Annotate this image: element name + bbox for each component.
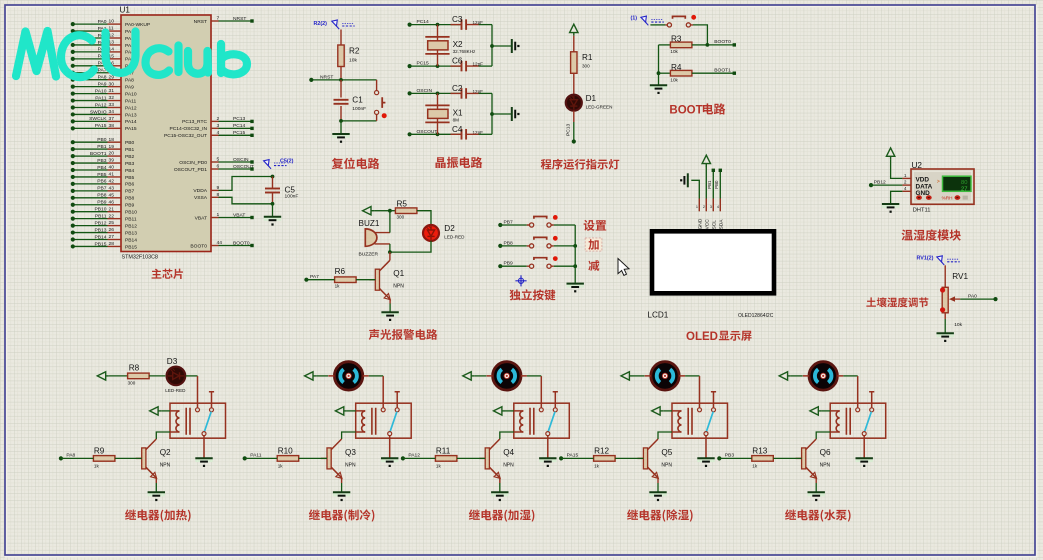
U1 pin PA1 (11) wire [73, 30, 108, 32]
svg-text:1k: 1k [594, 464, 600, 469]
resistor R1 [571, 52, 577, 74]
label 继电器(加湿) [469, 509, 535, 521]
wire R5 to D2 [417, 211, 431, 226]
wire to R1 [573, 36, 575, 52]
svg-text:(1): (1) [631, 16, 638, 22]
push button reset [376, 80, 378, 121]
svg-text:26: 26 [109, 227, 115, 233]
wire button to rail [554, 245, 575, 247]
svg-text:300: 300 [128, 380, 136, 385]
wire D3 to relay [186, 375, 198, 377]
svg-text:OSCOUT: OSCOUT [417, 129, 438, 135]
wire coil to transistor collector [816, 432, 830, 439]
svg-text:PA8: PA8 [66, 453, 75, 459]
svg-text:80: 80 [961, 180, 967, 186]
svg-text:PB13: PB13 [95, 227, 107, 233]
U2 pin 4 GND [902, 190, 911, 192]
op-amp U1 STM32F103C8 chip body [121, 15, 211, 252]
svg-text:PB12: PB12 [125, 223, 137, 229]
U1 pin VSSA (8) wire [211, 196, 219, 198]
svg-text:Q2: Q2 [160, 448, 171, 457]
wire VDDA to C5 [219, 177, 273, 191]
svg-text:PA11: PA11 [250, 453, 262, 459]
svg-text:100nF: 100nF [352, 106, 366, 112]
wire node to Q1 collector [389, 252, 391, 260]
svg-text:DHT11: DHT11 [913, 207, 931, 213]
svg-text:PA15: PA15 [95, 123, 107, 129]
svg-text:X1: X1 [453, 108, 463, 117]
wire GND pin to ground [891, 191, 903, 203]
svg-text:OSCIN: OSCIN [233, 157, 249, 163]
svg-text:PA7: PA7 [310, 274, 319, 280]
wire buzzer pins [389, 211, 391, 233]
U1 pin PB2 (20) wire [73, 155, 108, 157]
crystal X1 [437, 93, 439, 134]
U1 pin VDDA (9) wire [211, 189, 219, 191]
svg-text:20: 20 [109, 151, 115, 157]
U1 pin PB4 (40) wire [73, 169, 108, 171]
svg-text:34: 34 [109, 109, 115, 115]
U1 pin PA13 (34) wire [73, 113, 108, 115]
svg-text:PA15: PA15 [567, 453, 579, 459]
wire Q5 emitter to ground [657, 478, 659, 483]
wire coil to transistor collector [342, 432, 356, 439]
U1 pin PA4 (14) wire [73, 51, 108, 53]
capacitor C1 [340, 80, 342, 121]
svg-text:R9: R9 [94, 446, 105, 455]
svg-text:LCD1: LCD1 [647, 310, 668, 319]
svg-text:GND: GND [698, 218, 704, 229]
svg-text:C3: C3 [452, 15, 463, 24]
ground crystal X1 [512, 107, 515, 121]
wire Q4 emitter to ground [499, 478, 501, 483]
wire to RV1 [944, 265, 946, 287]
wire C1 bottom node [341, 120, 377, 122]
power flag R2(2) [332, 20, 339, 29]
svg-text:PC13: PC13 [233, 116, 246, 122]
svg-text:PB7: PB7 [504, 219, 514, 225]
capacitor C2 [462, 88, 467, 99]
wire VSSA to C5 [219, 197, 273, 204]
relay 继电器(加湿) [514, 403, 570, 438]
node OSCIN terminal [408, 91, 412, 95]
svg-text:40: 40 [109, 165, 115, 171]
motor load Q6 [809, 362, 837, 390]
crystal X2 [437, 25, 439, 67]
svg-text:PB9: PB9 [125, 203, 135, 209]
wire button to BOOT0 node [693, 25, 707, 45]
svg-text:PB12: PB12 [95, 220, 107, 226]
svg-text:PB3: PB3 [725, 453, 735, 459]
svg-text:R2(2): R2(2) [314, 21, 328, 27]
wire D2 to node [390, 241, 431, 252]
svg-text:BOOT0: BOOT0 [233, 240, 250, 246]
resistor R13 [752, 456, 774, 462]
svg-text:BUZZER: BUZZER [359, 251, 379, 257]
svg-text:R6: R6 [335, 267, 346, 276]
ground buttons [567, 283, 584, 288]
svg-text:PC15-OSC32_OUT: PC15-OSC32_OUT [164, 133, 207, 139]
svg-text:19: 19 [109, 144, 115, 150]
U1 pin PA9 (30) wire [73, 86, 108, 88]
svg-text:39: 39 [109, 158, 115, 164]
wire Q1 emitter to ground [389, 299, 391, 303]
svg-text:10k: 10k [954, 322, 962, 328]
ground Q1 [381, 311, 398, 316]
svg-text:RV1: RV1 [952, 272, 968, 281]
power arrow U2 [886, 148, 894, 156]
svg-text:VDDA: VDDA [193, 188, 207, 194]
wire button to rail [554, 224, 575, 226]
svg-text:10k: 10k [349, 58, 357, 64]
power arrow feed 继电器(除湿) [621, 372, 629, 380]
svg-text:PA9: PA9 [125, 84, 134, 90]
svg-text:1k: 1k [278, 464, 284, 469]
svg-text:PB14: PB14 [95, 234, 107, 240]
svg-text:PB1: PB1 [97, 144, 107, 150]
resistor R10 [277, 456, 299, 462]
svg-text:R8: R8 [129, 364, 140, 373]
svg-text:OSCIN_PD0: OSCIN_PD0 [179, 160, 207, 166]
svg-text:100nF: 100nF [285, 194, 299, 200]
svg-text:SCL: SCL [712, 220, 718, 230]
power arrow relay coil [494, 407, 502, 415]
svg-text:U2: U2 [912, 161, 923, 170]
svg-text:BUZ1: BUZ1 [359, 219, 380, 228]
LCD1 pin SDA stub [719, 199, 721, 212]
U1 pin PA7 (17) wire [73, 72, 108, 74]
transistor Q3 [321, 457, 327, 459]
resistor R8 [128, 373, 150, 379]
svg-text:BOOT1: BOOT1 [714, 67, 731, 73]
svg-text:SWCLK: SWCLK [89, 116, 107, 122]
svg-text:D1: D1 [586, 94, 597, 103]
svg-text:PA11: PA11 [125, 98, 137, 104]
potentiometer RV1 [942, 287, 948, 313]
push button PB9 [527, 265, 554, 267]
wire D1 to PC13 [573, 111, 575, 122]
svg-text:PA10: PA10 [125, 91, 137, 97]
power arrow feed 继电器(制冷) [305, 372, 313, 380]
wire motor to relay [369, 375, 384, 377]
U1 pin PA0-WKUP (10) wire [73, 23, 108, 25]
svg-text:37: 37 [109, 116, 115, 122]
svg-text:3: 3 [710, 205, 712, 209]
wire button common rail [574, 225, 576, 283]
svg-text:PB10: PB10 [125, 210, 137, 216]
svg-text:Q5: Q5 [661, 448, 672, 457]
svg-text:SDA: SDA [719, 219, 725, 230]
svg-text:PA8: PA8 [125, 78, 134, 84]
svg-text:22: 22 [109, 213, 115, 219]
svg-text:PB8: PB8 [97, 193, 107, 199]
svg-text:4: 4 [717, 205, 719, 209]
svg-text:NPN: NPN [820, 462, 831, 468]
U2 display screen [943, 176, 972, 191]
svg-text:R12: R12 [594, 446, 609, 455]
U1 pin PA5 (15) wire [73, 58, 108, 60]
transistor Q4 [479, 457, 485, 459]
svg-text:PA13: PA13 [125, 112, 137, 118]
wire RV1 to ground [944, 313, 946, 319]
wire C5 to ground [272, 204, 274, 217]
svg-text:PB14: PB14 [125, 237, 137, 243]
svg-text:LED-RED: LED-RED [165, 388, 186, 393]
U1 pin PB3 (39) wire [73, 162, 108, 164]
svg-text:PC15: PC15 [233, 130, 246, 136]
label 继电器(除湿) [627, 509, 693, 521]
svg-text:C1: C1 [352, 96, 363, 105]
push button PB7 [527, 224, 554, 226]
svg-text:18: 18 [109, 137, 115, 143]
svg-text:PB9: PB9 [504, 261, 514, 267]
label 复位电路 [332, 158, 380, 169]
capacitor C5 [272, 177, 274, 204]
svg-text:32: 32 [109, 95, 115, 101]
svg-text:PB3: PB3 [125, 161, 135, 167]
svg-text:NPN: NPN [393, 284, 404, 290]
svg-text:PB4: PB4 [97, 165, 107, 171]
node PA12 terminal [401, 456, 405, 460]
svg-text:D3: D3 [167, 357, 178, 366]
push button BOOT [650, 24, 665, 26]
power arrow buzzer [363, 207, 371, 215]
U1 pin PA3 (13) wire [73, 44, 108, 46]
U2 indicator dots [916, 195, 922, 200]
svg-text:BOOT0: BOOT0 [190, 243, 207, 249]
svg-text:PB6: PB6 [125, 182, 135, 188]
wire SDA to PB0 [719, 171, 721, 199]
svg-text:C5: C5 [285, 186, 296, 195]
svg-text:R10: R10 [278, 446, 293, 455]
node PA7 terminal [304, 278, 308, 282]
wire motor to relay [527, 375, 541, 377]
svg-text:OLED12864I2C: OLED12864I2C [738, 313, 774, 319]
transistor Q2 [136, 457, 142, 459]
node PB12 terminal [869, 183, 873, 187]
svg-text:PC14: PC14 [417, 19, 430, 25]
module U2 DHT11 body [911, 169, 974, 204]
motor load Q4 [493, 362, 521, 390]
relay 继电器(加热) [170, 403, 226, 438]
svg-text:STM32F103C8: STM32F103C8 [122, 255, 159, 261]
wire to R5 node [374, 210, 390, 212]
svg-text:27: 27 [109, 234, 115, 240]
svg-text:2: 2 [703, 205, 705, 209]
svg-text:300: 300 [582, 64, 590, 69]
U2 pin 1 VDD [902, 177, 911, 179]
label 继电器(水泵) [785, 509, 851, 521]
resistor R2 [338, 45, 344, 67]
resistor R6 [335, 277, 357, 283]
svg-text:PA14: PA14 [125, 119, 137, 125]
svg-text:PA15: PA15 [125, 126, 137, 132]
U1 pin PA11 (32) wire [73, 100, 108, 102]
LCD1 pin GND stub [698, 199, 700, 212]
svg-text:32.768KHz: 32.768KHz [453, 49, 476, 54]
svg-text:LED-GREEN: LED-GREEN [586, 104, 613, 109]
U1 pin VBAT (1) wire [211, 217, 219, 219]
U1 pin PB11 (22) wire [73, 218, 108, 220]
U1 pin PA6 (16) wire [73, 65, 108, 67]
ground Q4 [491, 492, 508, 497]
power arrow relay coil [810, 407, 818, 415]
ground OLED [684, 173, 687, 187]
svg-text:PB5: PB5 [125, 175, 135, 181]
power arrow feed 继电器(水泵) [779, 372, 787, 380]
mouse cursor [618, 259, 629, 276]
U2 pin 2 DATA [902, 184, 911, 186]
power arrow feed 继电器(加湿) [463, 372, 471, 380]
node PA0 wire [960, 298, 995, 300]
svg-text:PA8: PA8 [98, 75, 107, 81]
U1 pin PB9 (46) wire [73, 204, 108, 206]
svg-text:R5: R5 [397, 200, 408, 209]
U1 pin PB5 (41) wire [73, 176, 108, 178]
svg-text:PC13: PC13 [566, 123, 572, 136]
svg-text:PB0: PB0 [125, 140, 135, 146]
U1 pin PB0 (18) wire [73, 141, 108, 143]
svg-text:PB8: PB8 [125, 196, 135, 202]
svg-text:U1: U1 [120, 6, 131, 15]
svg-text:45: 45 [109, 192, 115, 198]
svg-text:8M: 8M [453, 117, 460, 122]
U1 pin PB14 (27) wire [73, 239, 108, 241]
svg-text:PC15: PC15 [417, 61, 430, 67]
svg-text:Q6: Q6 [820, 448, 831, 457]
label 独立按键 [510, 289, 556, 300]
label 主芯片 [152, 269, 183, 279]
capacitor C6 [462, 61, 467, 72]
LCD1 pin VCC stub [705, 199, 707, 212]
svg-text:25: 25 [109, 220, 115, 226]
node PA8 terminal [59, 456, 63, 460]
svg-text:PC14-OSC32_IN: PC14-OSC32_IN [169, 126, 207, 132]
U1 pin BOOT0 (44) wire [211, 245, 219, 247]
motor load Q5 [651, 362, 679, 390]
svg-text:21: 21 [109, 206, 115, 212]
node PC15 terminal [408, 64, 412, 68]
node PB7 terminal [498, 223, 502, 227]
wire R1 to D1 [573, 73, 575, 95]
svg-text:R11: R11 [436, 446, 451, 455]
relay 继电器(水泵) [830, 403, 886, 438]
svg-text:C5(2): C5(2) [280, 159, 294, 165]
svg-text:PB7: PB7 [125, 189, 135, 195]
ground BOOT [650, 85, 667, 90]
resistor R4 [658, 45, 660, 85]
U1 pin OSCIN_PD0 (5) wire [211, 161, 219, 163]
wire right rail [491, 93, 493, 134]
wire motor to relay [685, 375, 699, 377]
wire VCC to R2 [340, 30, 342, 46]
node PC13 terminal [572, 139, 576, 143]
svg-text:41: 41 [109, 172, 115, 178]
svg-text:PB12: PB12 [874, 179, 886, 185]
wire coil to transistor collector [658, 432, 672, 439]
svg-text:PB0: PB0 [97, 137, 107, 143]
U1 pin PA2 (12) wire [73, 37, 108, 39]
power arrow relay coil [150, 407, 158, 415]
motor load Q3 [334, 362, 362, 390]
node OSCOUT terminal [408, 132, 412, 136]
svg-text:R4: R4 [671, 63, 682, 72]
svg-text:PA12: PA12 [408, 453, 420, 459]
svg-text:PB4: PB4 [125, 168, 135, 174]
svg-text:10k: 10k [670, 49, 678, 54]
svg-text:PA11: PA11 [95, 95, 107, 101]
power arrow feed heater [97, 372, 105, 380]
svg-text:1k: 1k [94, 464, 100, 469]
power arrow relay coil [652, 407, 660, 415]
svg-text:1k: 1k [752, 464, 758, 469]
ground crystal X2 [512, 39, 515, 53]
svg-text:D2: D2 [444, 224, 455, 233]
wire coil to transistor collector [156, 432, 170, 439]
node PA15 terminal [559, 456, 563, 460]
svg-text:PA0: PA0 [968, 293, 977, 299]
label 加 selected [585, 238, 602, 251]
resistor R11 [435, 456, 457, 462]
svg-text:PB2: PB2 [125, 154, 135, 160]
RV1 wiper arrow [952, 298, 961, 300]
U1 pin PC13_RTC (2) wire [211, 120, 219, 122]
svg-text:LED-RED: LED-RED [444, 235, 465, 240]
svg-text:SWDIO: SWDIO [90, 109, 107, 115]
label 设置 [584, 220, 607, 231]
U1 pin PB15 (28) wire [73, 245, 108, 247]
svg-text:%RH: %RH [942, 196, 953, 201]
node PC14 terminal [408, 23, 412, 27]
power arrow relay coil [335, 407, 343, 415]
svg-text:PB15: PB15 [125, 244, 137, 250]
resistor R9 [93, 456, 115, 462]
capacitor C3 [462, 19, 467, 30]
svg-text:PA0: PA0 [98, 19, 107, 25]
svg-text:C6: C6 [452, 57, 463, 66]
wire Q3 emitter to ground [341, 478, 343, 483]
U1 pin PB12 (25) wire [73, 225, 108, 227]
wire motor to relay [843, 375, 857, 377]
node PA11 terminal [243, 456, 247, 460]
U1 pin PB8 (45) wire [73, 197, 108, 199]
node NRST wire [311, 79, 376, 81]
svg-text:10: 10 [109, 19, 115, 25]
relay 继电器(除湿) [672, 403, 728, 438]
svg-text:NPN: NPN [661, 462, 672, 468]
node PB9 terminal [498, 264, 502, 268]
svg-text:46: 46 [109, 199, 115, 205]
diode D3 LED-RED [167, 367, 186, 386]
U1 pin OSCOUT_PD1 (6) wire [211, 168, 219, 170]
svg-text:42: 42 [109, 179, 115, 185]
svg-text:R13: R13 [752, 446, 767, 455]
power arrow OLED VCC [705, 166, 707, 198]
wire right rail [491, 25, 493, 67]
svg-text:>: > [937, 179, 940, 185]
wire VDD [891, 159, 903, 178]
U1 pin PA14 (37) wire [73, 120, 108, 122]
svg-text:R3: R3 [671, 35, 682, 44]
resistor R3 [659, 44, 671, 46]
svg-text:NPN: NPN [503, 462, 514, 468]
svg-text:PA10: PA10 [95, 88, 107, 94]
node PB8 terminal [498, 244, 502, 248]
svg-text:PC14: PC14 [233, 123, 246, 129]
transistor Q5 [637, 457, 643, 459]
U1 pin NRST (7) wire [211, 20, 219, 22]
svg-text:NRST: NRST [320, 74, 333, 80]
